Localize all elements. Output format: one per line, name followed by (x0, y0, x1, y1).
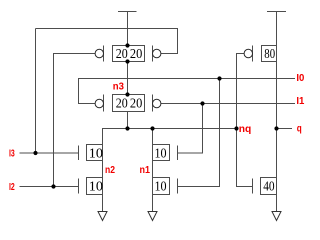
wire n3 stem (127, 62, 129, 95)
nmos N4 gate (177, 179, 179, 194)
wire I3 top run (36, 29, 178, 54)
vdd symbol left (118, 11, 137, 46)
nmos box N5 (40) (261, 178, 277, 195)
nmos N3 gate (177, 146, 179, 161)
wire I1 to n-gate (178, 104, 203, 154)
svg-text:q: q (297, 122, 302, 134)
wire nq row (103, 129, 237, 145)
junction dot I3 (33, 151, 37, 155)
junction dot nq row right (150, 126, 154, 130)
nmos N1 gate (78, 146, 80, 161)
pmos pair P3 P4 right gate (153, 95, 161, 112)
pmos pair P1 P2 right gate (153, 46, 161, 62)
junction dot nq row left (125, 126, 129, 130)
wire left stack to ground (102, 195, 104, 212)
nmos box N1 (10) (87, 145, 103, 161)
wire node n1 (152, 161, 154, 178)
junction dot n3 / pmos pair 2 top (125, 92, 129, 96)
ground middle (148, 212, 157, 221)
svg-text:10: 10 (155, 180, 167, 195)
junction dot I1 (200, 101, 204, 105)
svg-text:n3: n3 (113, 81, 124, 93)
svg-text:n1: n1 (140, 164, 151, 176)
svg-text:20: 20 (116, 47, 128, 62)
wire I2 run (54, 54, 96, 187)
svg-text:n2: n2 (105, 164, 115, 176)
junction dot q (274, 126, 278, 130)
svg-text:10: 10 (89, 147, 103, 162)
svg-text:20: 20 (116, 96, 128, 111)
wire right stack top to nq (152, 129, 154, 145)
svg-text:10: 10 (155, 147, 167, 162)
wire pmos pair 2 to nq (127, 112, 129, 129)
svg-text:I0: I0 (296, 72, 304, 84)
wire q stub (277, 128, 293, 130)
svg-text:20: 20 (130, 96, 142, 111)
wire I2 input (20, 186, 79, 188)
svg-text:I2: I2 (9, 181, 15, 193)
wire node n2 (102, 161, 104, 178)
svg-text:I3: I3 (9, 148, 15, 160)
pmos P5 gate (244, 46, 252, 62)
wire nq gate net (237, 54, 253, 187)
wire I3 input (20, 152, 79, 154)
wire I3 vertical (35, 29, 37, 154)
svg-text:I1: I1 (296, 95, 304, 107)
svg-text:80: 80 (264, 47, 275, 62)
pmos pair P1 P2 left gate (95, 46, 103, 62)
wire I0 to n-gate (178, 79, 220, 187)
pmos pair P3 P4 left gate (95, 95, 103, 112)
wire nmos 40 to ground (276, 195, 278, 212)
ground left (98, 212, 107, 221)
wire I1 run (161, 103, 295, 105)
ground right (272, 212, 281, 221)
junction dot vdd / pmos pair top (125, 43, 129, 47)
nmos box N2 (10) (87, 178, 103, 195)
svg-text:40: 40 (263, 180, 274, 195)
nmos box N3 (10) (153, 145, 170, 161)
vdd symbol right (267, 11, 286, 46)
svg-text:10: 10 (89, 180, 103, 195)
wire q vertical (276, 62, 278, 178)
svg-text:nq: nq (239, 123, 252, 135)
pmos pair box P3 P4 (20/20) node n3 (113, 95, 145, 112)
nmos box N4 (10) (153, 178, 170, 195)
pmos box P5 (80) (262, 46, 277, 62)
wire right stack to ground (152, 195, 154, 212)
junction dot pmos pair bottom (125, 59, 129, 63)
junction dot I2 (51, 184, 55, 188)
wire I0 run (79, 79, 296, 104)
nmos N2 gate (78, 179, 80, 194)
nmos N5 gate (252, 179, 254, 194)
pmos pair box P1 P2 (20/20) (113, 46, 145, 62)
junction dot nq (234, 126, 238, 130)
junction dot I0 (217, 76, 221, 80)
svg-text:20: 20 (130, 47, 142, 62)
